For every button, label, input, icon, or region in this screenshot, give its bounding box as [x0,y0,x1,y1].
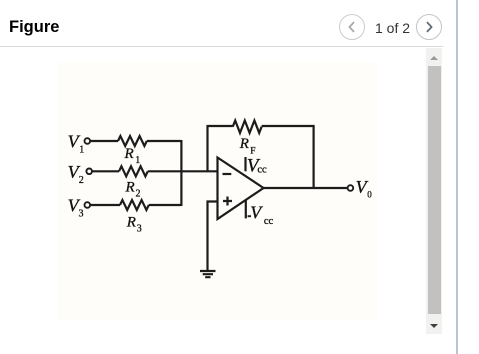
svg-text:1: 1 [135,155,140,166]
svg-text:3: 3 [137,223,142,234]
node V1 terminal [85,138,91,144]
label V2 [68,162,84,186]
wire to inverting input [148,170,218,172]
-Vcc pin bar [245,200,247,219]
label Vo [356,177,373,199]
op-amp U1 triangle [218,158,264,220]
svg-text:3: 3 [79,209,84,220]
label V3 [68,196,84,220]
ground [200,271,216,277]
+Vcc pin bar [244,157,246,171]
svg-text:2: 2 [136,188,141,199]
wire output [264,187,348,189]
resistor R2 [119,166,148,176]
op-amp plus sign [223,197,232,206]
wire feedback top left [207,125,233,127]
node V3 terminal [85,202,91,208]
resistor R3 [120,200,149,210]
svg-text:2: 2 [79,175,84,186]
wire noninverting input [208,202,218,271]
label R3 [126,215,142,235]
wire [90,204,120,206]
node Vo terminal [348,185,354,191]
label +Vcc [247,155,267,176]
label R2 [125,179,141,199]
svg-text:1: 1 [79,145,84,156]
wire [92,170,119,172]
wire [90,140,118,142]
label V1 [68,132,85,156]
resistor R1 [118,136,147,146]
label R1 [124,146,141,166]
svg-text:R: R [239,136,249,152]
wire feedback left vertical [206,126,208,171]
wire feedback right vertical [313,126,315,188]
svg-text:cc: cc [264,216,274,227]
wire feedback top right [262,125,315,127]
svg-text:cc: cc [257,164,267,175]
label -Vcc [250,202,273,227]
wire bus vertical [180,140,182,206]
resistor RF [233,120,262,132]
wire [149,204,182,206]
svg-text:V: V [250,202,263,222]
svg-text:R: R [126,215,136,231]
node V2 terminal [86,169,92,175]
label -Vcc hyphen [248,215,251,217]
svg-text:R: R [124,146,134,162]
label RF [239,136,256,156]
op-amp minus sign [223,173,232,175]
wire [147,140,182,142]
svg-text:0: 0 [367,190,372,200]
svg-text:R: R [125,179,135,195]
